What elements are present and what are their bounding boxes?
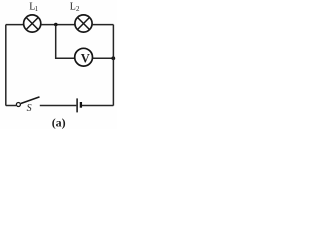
svg-text:2: 2 <box>76 5 80 13</box>
wire top-middle segment <box>41 24 75 26</box>
battery BT1 long plate <box>76 98 78 112</box>
node junction A (top) <box>54 23 58 27</box>
label L1 <box>29 2 38 13</box>
node junction B (right rail) <box>111 56 115 60</box>
wire top-right segment <box>92 24 113 26</box>
wire voltmeter to right rail <box>93 57 114 59</box>
lamp L2 <box>75 15 92 32</box>
lamp L1 <box>24 15 41 32</box>
voltmeter U1 <box>75 48 93 66</box>
svg-text:S: S <box>27 103 32 114</box>
svg-text:1: 1 <box>35 5 39 13</box>
wire voltmeter branch (down then right) <box>56 25 75 59</box>
battery BT1 short plate <box>80 102 82 108</box>
svg-text:V: V <box>81 51 90 65</box>
wire switch to battery <box>40 105 77 107</box>
label L2 <box>70 2 80 13</box>
wire left rail <box>5 25 7 106</box>
wire top-left segment <box>6 24 24 26</box>
wire right rail <box>112 25 114 106</box>
switch S <box>16 97 39 107</box>
svg-text:(a): (a) <box>52 115 66 129</box>
wire bottom-left segment <box>6 105 16 107</box>
svg-text:L: L <box>70 2 76 13</box>
wire battery to bottom-right corner <box>82 105 113 107</box>
